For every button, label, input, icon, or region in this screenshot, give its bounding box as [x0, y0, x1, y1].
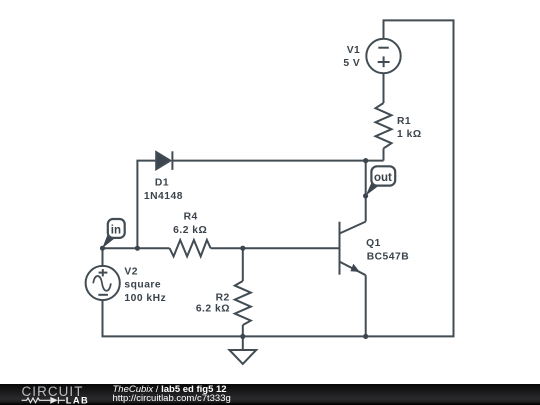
svg-text:LAB: LAB	[66, 396, 89, 405]
svg-text:in: in	[111, 224, 121, 236]
svg-text:V2: V2	[124, 267, 138, 278]
svg-text:R4: R4	[184, 211, 198, 222]
svg-text:square: square	[124, 280, 161, 291]
svg-text:R2: R2	[216, 293, 230, 304]
svg-text:D1: D1	[155, 178, 169, 189]
svg-text:R1: R1	[397, 116, 411, 127]
svg-text:1 kΩ: 1 kΩ	[397, 129, 422, 140]
svg-text:Q1: Q1	[366, 238, 381, 249]
svg-text:100 kHz: 100 kHz	[124, 293, 166, 304]
svg-text:V1: V1	[347, 45, 361, 56]
svg-text:1N4148: 1N4148	[144, 191, 183, 202]
svg-text:5 V: 5 V	[343, 58, 360, 69]
svg-text:6.2 kΩ: 6.2 kΩ	[173, 225, 207, 236]
svg-text:BC547B: BC547B	[367, 252, 410, 263]
svg-text:6.2 kΩ: 6.2 kΩ	[196, 304, 230, 315]
svg-text:out: out	[374, 172, 392, 184]
